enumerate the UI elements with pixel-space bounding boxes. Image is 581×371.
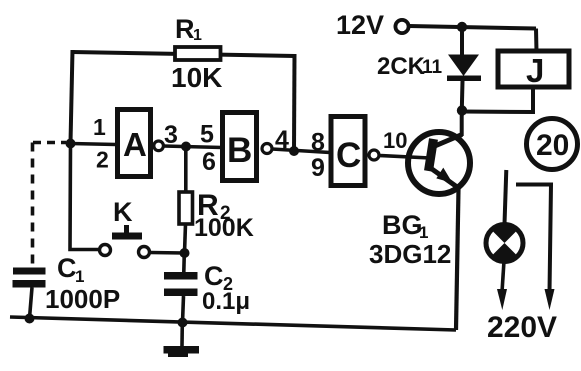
wire K to R2/C2 junction — [150, 251, 185, 255]
wire C1 bottom lead — [30, 288, 33, 319]
wire lamp bottom lead with arrow — [497, 261, 507, 310]
wire junction to gate A input — [71, 144, 117, 145]
node diode top junction — [457, 22, 467, 32]
wire 12V rail corner down to relay J — [534, 29, 539, 53]
svg-text:C: C — [204, 261, 224, 291]
pin 3 — [164, 121, 178, 149]
capacitor C1 — [13, 253, 121, 314]
pin 1 — [93, 114, 106, 140]
svg-text:20: 20 — [536, 129, 569, 162]
svg-text:C: C — [57, 253, 77, 283]
wire R2 bottom to K junction — [185, 224, 186, 253]
wire right feedback vertical — [292, 54, 297, 151]
wire junction to R2 top — [184, 147, 188, 193]
pin 6 — [202, 148, 216, 176]
node R2 branch junction — [181, 142, 191, 152]
svg-text:1: 1 — [93, 114, 106, 140]
wire top feedback horizontal (R1 net) — [72, 52, 295, 56]
svg-text:K: K — [113, 197, 133, 227]
svg-text:BG: BG — [382, 210, 423, 240]
node feedback/C-input junction — [289, 146, 299, 156]
svg-text:220V: 220V — [487, 311, 557, 344]
wire left feedback vertical — [71, 50, 73, 143]
svg-text:5: 5 — [200, 121, 214, 149]
lamp EL — [486, 225, 523, 262]
resistor R1 — [171, 14, 222, 93]
wire C2 bottom to ground wire — [183, 296, 184, 323]
node input A junction — [66, 139, 76, 149]
gate B output bubble — [262, 144, 272, 154]
svg-text:10K: 10K — [171, 62, 222, 93]
svg-text:12V: 12V — [336, 10, 384, 40]
wire B output to C input — [272, 149, 330, 153]
svg-text:8: 8 — [311, 129, 325, 157]
figure number 20 — [527, 119, 578, 170]
gate C (U3) — [331, 117, 365, 186]
wire right 220V lead — [516, 185, 555, 311]
gate C output bubble — [369, 150, 379, 160]
wire A output to B input — [164, 146, 223, 148]
svg-text:100K: 100K — [194, 214, 254, 242]
svg-text:J: J — [526, 52, 544, 89]
wire left vertical down to K — [70, 144, 99, 250]
transistor Q1 BG1 — [369, 132, 470, 269]
wire 12V rail — [409, 26, 536, 29]
node diode bottom junction — [457, 105, 467, 115]
svg-text:2: 2 — [96, 147, 109, 173]
pin 2 — [96, 147, 109, 173]
svg-text:1000P: 1000P — [45, 284, 120, 314]
wire collector up to diode node — [460, 110, 464, 136]
capacitor C2 — [164, 261, 250, 315]
gate A (U1) — [118, 110, 151, 177]
svg-text:6: 6 — [202, 148, 216, 176]
pin 9 — [311, 154, 325, 182]
gate B (U2) — [223, 113, 257, 181]
switch K — [100, 197, 150, 258]
svg-text:R: R — [175, 14, 195, 44]
node C2/ground junction — [178, 318, 188, 328]
svg-text:11: 11 — [422, 57, 443, 78]
terminal 12V — [336, 10, 409, 40]
pin 4 — [275, 126, 289, 154]
wire lamp top lead — [505, 170, 507, 224]
wire emitter down to bottom rail — [456, 189, 459, 330]
node C1/bottom-wire junction — [25, 314, 35, 324]
svg-text:2CK: 2CK — [377, 53, 426, 80]
svg-text:3DG12: 3DG12 — [369, 239, 451, 269]
relay J — [498, 51, 569, 89]
pin 5 — [200, 121, 214, 149]
wire K junction to C2 top — [182, 253, 186, 272]
label 220V — [487, 311, 557, 344]
resistor R2 — [179, 189, 254, 242]
pin 8 — [311, 129, 325, 157]
wire dashed stub to C1 (horizontal) — [33, 141, 66, 145]
svg-text:10: 10 — [383, 128, 407, 153]
svg-text:9: 9 — [311, 154, 325, 182]
wire relay J bottom to diode node — [462, 87, 533, 112]
wire dashed vertical to C1 — [31, 143, 35, 268]
node K/R2/C2 junction — [180, 248, 190, 258]
diode 2CK11 — [377, 27, 481, 110]
pin 10 — [383, 128, 407, 153]
svg-text:C: C — [336, 136, 361, 175]
svg-text:B: B — [227, 131, 252, 170]
wire bottom rail — [10, 317, 456, 330]
svg-text:1: 1 — [193, 27, 202, 44]
ground — [164, 323, 200, 358]
svg-text:0.1μ: 0.1μ — [202, 288, 250, 315]
wire C output to transistor base — [379, 156, 430, 159]
gate A output bubble — [154, 141, 164, 151]
svg-text:A: A — [123, 126, 147, 163]
